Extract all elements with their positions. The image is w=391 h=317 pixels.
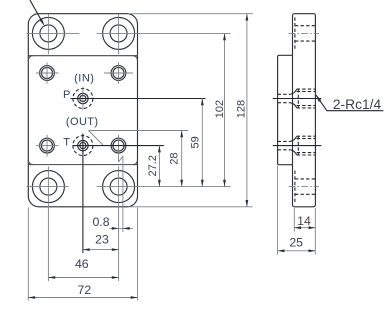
plate outline front view xyxy=(28,14,137,207)
leader 2-Rc1/4 xyxy=(316,95,384,113)
svg-text:46: 46 xyxy=(75,257,89,271)
svg-text:28: 28 xyxy=(169,152,181,164)
svg-text:23: 23 xyxy=(95,233,109,247)
small hole top-right xyxy=(104,62,133,84)
svg-text:59: 59 xyxy=(190,136,202,148)
svg-text:(OUT): (OUT) xyxy=(66,116,99,128)
svg-text:72: 72 xyxy=(78,283,92,297)
inner corner arcs of middle section xyxy=(28,56,137,165)
side view boss xyxy=(278,55,293,164)
extension line plate top to 128 xyxy=(128,13,253,15)
jog extension line from T port for dim 28 xyxy=(89,130,189,132)
svg-text:(IN): (IN) xyxy=(74,72,94,84)
dimension 59 xyxy=(190,99,204,187)
svg-text:27.2: 27.2 xyxy=(147,155,159,176)
P port xyxy=(70,87,205,111)
jog extension for dim 0.8 xyxy=(119,156,123,232)
dimension 27.2 xyxy=(147,146,161,187)
leader arrow top-left xyxy=(30,0,43,24)
extension line plate bottom to 128 xyxy=(128,206,253,208)
big hole top-right xyxy=(97,14,231,54)
dimension 72 xyxy=(28,208,137,301)
small hole top-left xyxy=(36,62,59,84)
section line upper xyxy=(28,55,137,57)
svg-text:128: 128 xyxy=(235,100,247,118)
dimension 23 xyxy=(83,233,119,252)
dimension 25 xyxy=(278,166,316,255)
section line lower xyxy=(28,164,137,166)
small hole bottom-right xyxy=(111,135,126,162)
svg-text:P: P xyxy=(63,89,70,101)
svg-text:T: T xyxy=(63,137,70,149)
svg-text:25: 25 xyxy=(289,236,303,250)
dimension 14 xyxy=(294,208,315,255)
dimension 102 xyxy=(214,33,226,186)
T port xyxy=(73,134,164,253)
small hole bottom-left xyxy=(36,135,59,157)
big hole bottom-left xyxy=(26,166,68,281)
side view top bolt hole hidden xyxy=(289,17,319,49)
dimension 0.8 xyxy=(92,215,133,230)
big hole top-left xyxy=(26,14,79,54)
side view bottom bolt hole hidden xyxy=(289,171,319,203)
dimension 28 xyxy=(169,131,184,187)
side view T port xyxy=(273,136,322,155)
side view P port xyxy=(273,89,322,108)
dimension 46 xyxy=(48,257,118,279)
svg-text:0.8: 0.8 xyxy=(92,215,109,229)
svg-text:2-Rc1/4: 2-Rc1/4 xyxy=(333,97,382,112)
big hole bottom-right xyxy=(97,166,231,281)
svg-text:14: 14 xyxy=(297,214,311,228)
svg-text:102: 102 xyxy=(214,100,226,118)
side view main body xyxy=(293,14,316,207)
dimension 128 xyxy=(235,14,248,207)
